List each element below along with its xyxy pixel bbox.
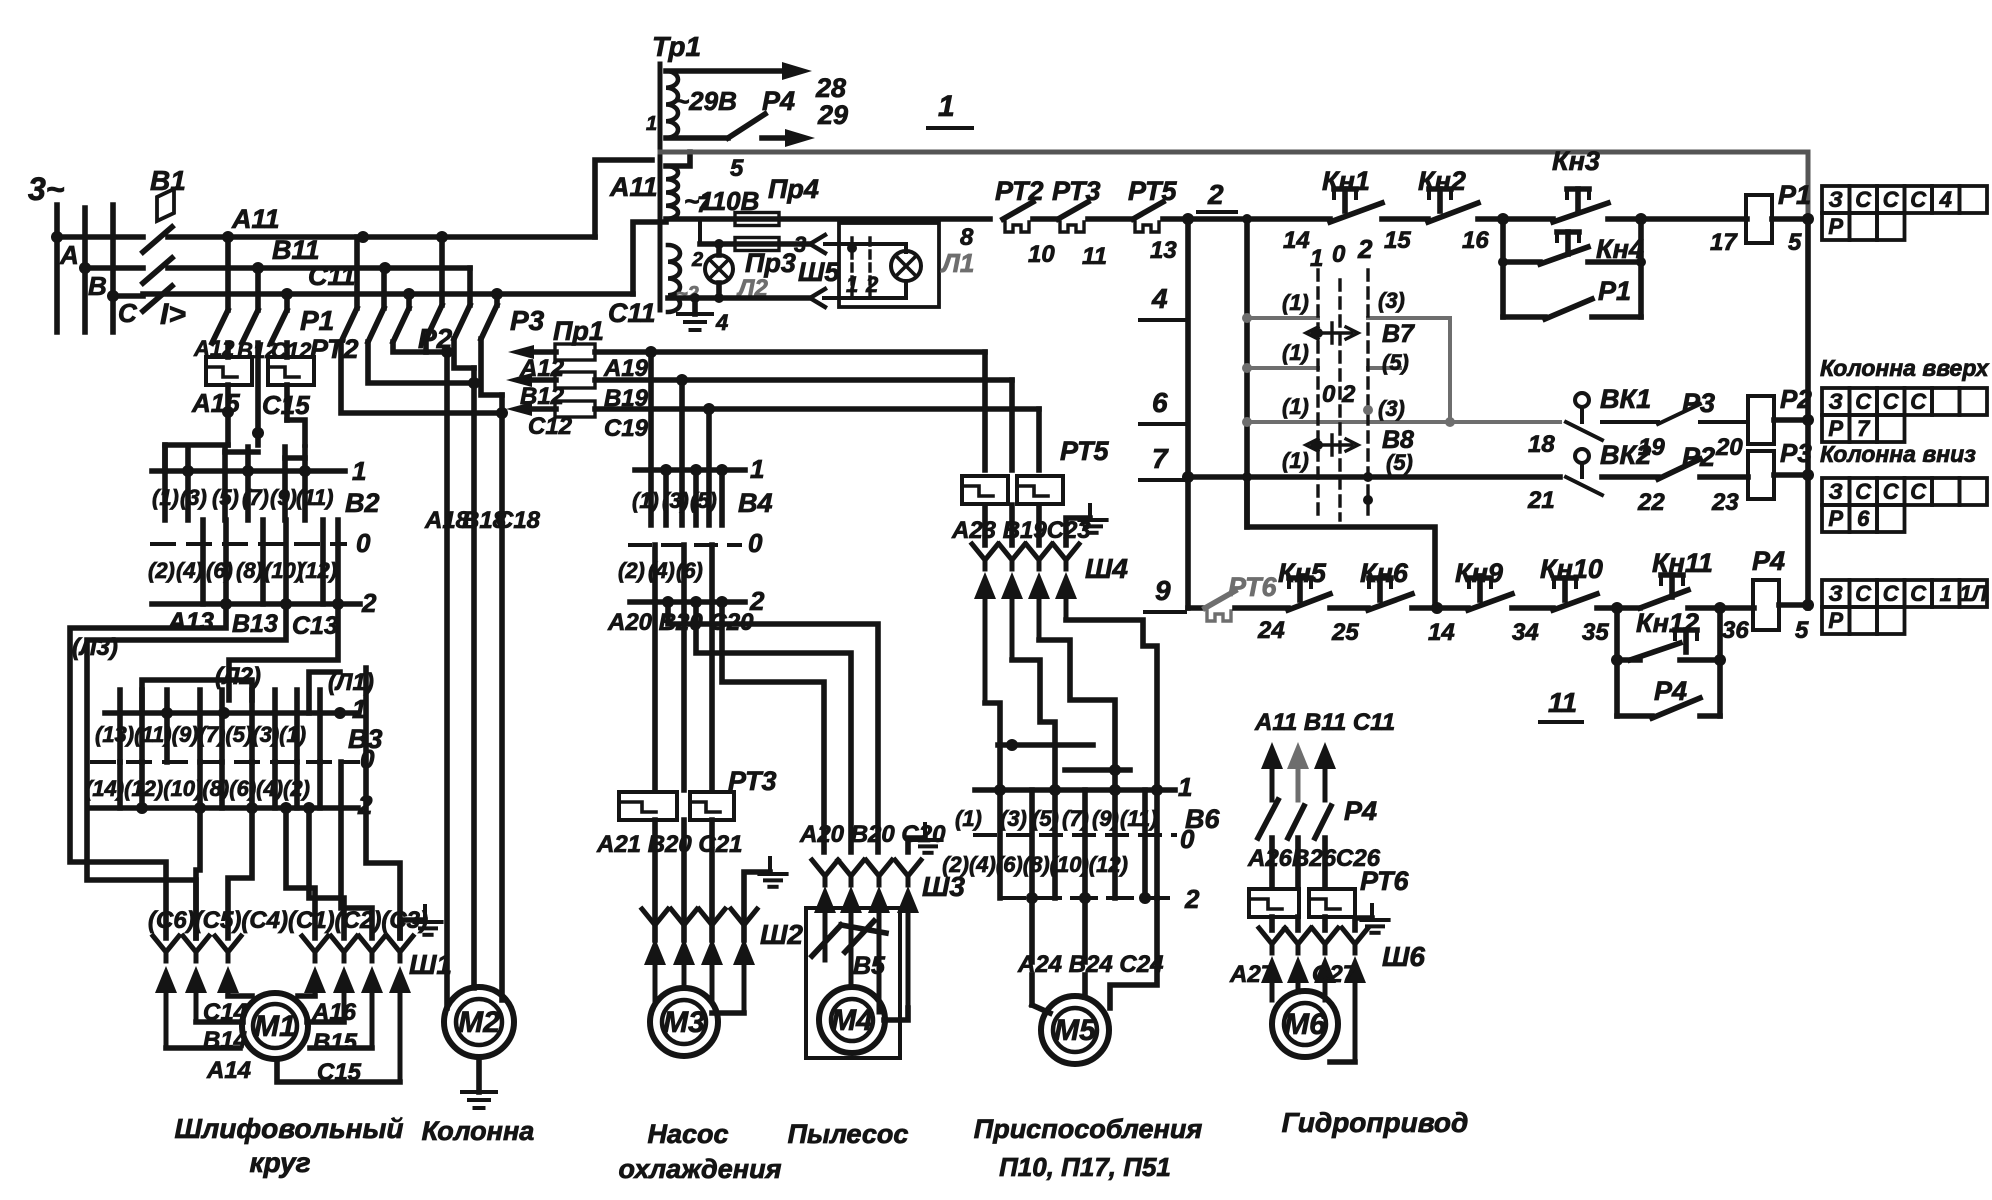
svg-text:1: 1 [352,694,366,724]
terminal block column down [1822,478,1850,505]
node rail P1 [1802,213,1814,225]
wire bus C to switch [113,293,143,299]
switch B2 poles upper [162,447,168,520]
svg-text:2: 2 [1207,179,1224,210]
svg-text:С: С [1855,581,1872,606]
node C18 join [496,407,508,419]
ground Sh4 [1079,518,1106,522]
svg-text:Шлифовольный: Шлифовольный [174,1113,403,1144]
wire M3 return [744,872,770,940]
svg-text:2: 2 [1184,884,1200,914]
svg-text:(7): (7) [242,485,269,510]
node A11-P1 [222,231,234,243]
wire [1700,474,1748,480]
node B4-1c [716,464,728,476]
svg-text:Р3: Р3 [1682,388,1715,418]
node [1445,417,1455,427]
svg-text:15: 15 [1384,227,1411,254]
svg-text:А27: А27 [1229,961,1276,988]
wire Sh4-B6 stair C [1039,640,1115,790]
svg-text:2: 2 [361,588,377,618]
svg-text:Ш2: Ш2 [760,919,803,950]
svg-text:25: 25 [1331,619,1359,646]
svg-text:Приспособления: Приспособления [974,1114,1203,1144]
button Kn6 [1377,578,1383,600]
wire M5 leads [1029,898,1035,962]
fuse Pr1-A [555,344,595,360]
wire secondary 29V top lead to arrow 28 [666,68,792,74]
svg-text:(2)(4)(6)(8)(10)(12): (2)(4)(6)(8)(10)(12) [942,852,1128,877]
svg-text:Колонна вверх: Колонна вверх [1820,355,1990,381]
transformer Tp1 winding 29V [666,71,678,138]
wire M4 phase C [722,602,824,852]
wire net A12 arrow [522,349,556,355]
wire [1602,474,1658,480]
switch B4 neutral 0 [630,543,740,547]
svg-text:С12: С12 [528,413,573,440]
node B11-P2 [379,262,391,274]
svg-text:21: 21 [1527,487,1555,514]
svg-text:Р: Р [1828,214,1843,239]
wire 24V return [668,295,810,301]
svg-text:Кн6: Кн6 [1360,558,1409,588]
node [1498,257,1508,267]
wire row rail vertical [1244,219,1250,527]
svg-text:18: 18 [1528,431,1555,458]
svg-text:В15: В15 [313,1029,358,1056]
node B4-1b [690,464,702,476]
relay coil P2 [1748,396,1774,444]
svg-text:(6): (6) [676,558,703,583]
svg-text:С19: С19 [604,415,649,442]
svg-text:Пр3: Пр3 [745,248,796,278]
switch B2 line 2 [152,601,360,607]
svg-text:С: С [1855,187,1872,212]
relay coil P1 [1746,195,1772,243]
node B4-1a [660,464,672,476]
node line2 start [1182,213,1194,225]
wire B3 pole feeds [142,680,252,713]
svg-text:Кн10: Кн10 [1540,554,1603,584]
node [1802,469,1814,481]
wire RT5 drop rail [1185,219,1191,608]
svg-text:А21 В20 С21: А21 В20 С21 [596,831,742,858]
wire 29V lead arrow 29 [762,135,795,141]
svg-text:4: 4 [715,310,728,335]
svg-text:РТ2: РТ2 [995,176,1044,206]
motor M2 [444,987,514,1057]
svg-text:Ш4: Ш4 [1085,553,1128,584]
connector Sh4 plugs [983,586,988,703]
svg-text:22: 22 [1637,489,1665,516]
wire C19 line [595,406,1039,412]
terminal block circuit 9 [1822,580,1850,607]
switch B3 neutral 0 [92,760,358,764]
svg-text:14: 14 [1283,227,1310,254]
wire M4 phase A [668,602,878,852]
button Kn5 [1297,578,1303,600]
wire to Sh1 pin C5 [196,808,200,938]
node B3-2b [194,802,206,814]
switch B6 neutral 0 [975,833,1175,837]
svg-text:З: З [1829,581,1843,606]
wire A19 drop to PT5 [982,352,988,470]
wire M4 entries [884,1008,908,1020]
wire phase C drop [110,205,116,332]
svg-text:Р3: Р3 [510,305,545,336]
svg-text:РТ6: РТ6 [1360,866,1409,896]
node [1242,417,1252,427]
wire to Sh1 pin C1 [286,808,315,938]
svg-text:круг: круг [249,1147,310,1178]
wire 110V lead to fuse Pr4 [666,216,990,222]
svg-text:Р4: Р4 [762,86,795,116]
svg-text:Пр1: Пр1 [553,316,604,346]
node B6-2a [1026,892,1038,904]
svg-text:Р1: Р1 [300,305,334,336]
wire bus A11 [168,234,595,240]
wire line 9 rail [1188,605,1205,611]
thermal contact RT6 [1205,591,1235,608]
svg-text:С: С [1910,581,1927,606]
node B3-1c [334,707,346,719]
svg-text:35: 35 [1582,619,1609,646]
switch B6 poles [997,790,1003,898]
wire Kn4 bypass left [1500,219,1506,317]
svg-text:28: 28 [815,73,846,103]
wire bus B to switch [85,265,143,271]
svg-text:6: 6 [1152,387,1168,418]
wire line 2 rail [1188,216,1330,222]
node [1802,414,1814,426]
svg-text:13: 13 [1150,237,1177,264]
ground transformer [692,298,698,314]
node lamp top [714,239,724,249]
node B2-2c [332,598,344,610]
wire coil P2 to rail [1774,417,1808,423]
node A15 [222,406,234,418]
svg-text:(9): (9) [270,485,297,510]
relay coil P3 [1748,451,1774,499]
contact P4 in 29V line [666,135,728,141]
svg-text:(1): (1) [1282,448,1309,473]
switch B2 line 1 [152,468,345,474]
thermal relay PT3 heaters [619,792,677,820]
svg-text:М5: М5 [1054,1014,1097,1047]
svg-text:А: А [59,240,79,270]
svg-text:(4): (4) [176,558,203,583]
svg-text:С11: С11 [308,261,356,291]
vacuum cleaner box [806,908,900,1058]
svg-text:4: 4 [1151,283,1168,314]
node C19-B4 [703,403,715,415]
svg-text:0 2: 0 2 [1322,381,1356,408]
switch B4 line 1 [635,467,745,473]
button Kn1 [1342,189,1348,211]
svg-text:(9): (9) [1092,806,1119,831]
svg-text:1: 1 [1310,245,1323,272]
plug pin 2 [868,238,871,295]
wire right return rail [1806,152,1811,219]
switch B4 line 2 [630,599,745,605]
ground Sh6 [1361,918,1388,922]
svg-text:Ш6: Ш6 [1382,941,1425,972]
thermal contact RT2 [1003,202,1033,219]
svg-text:В: В [88,271,107,301]
switch B4 contacts lower [652,545,658,602]
svg-text:(7): (7) [1062,806,1089,831]
button Kn12 bypass [1614,608,1620,660]
wire row 7 [1188,474,1560,480]
svg-text:Колонна вниз: Колонна вниз [1820,441,1976,467]
svg-text:РТ6: РТ6 [1228,572,1277,602]
node B4-2c [716,596,728,608]
wire M5 leads lower [1029,975,1035,1005]
svg-text:Р3: Р3 [1780,438,1812,468]
wire 110V top lead to line 1 bus [666,152,690,166]
selector B8 crossbar [1306,435,1358,455]
thermal relay PT6 heaters [1249,889,1299,917]
wire phase B drop [82,208,88,332]
thermal relay PT2 heaters [206,357,252,385]
svg-text:Кн5: Кн5 [1278,558,1327,588]
transformer Tp1 winding 24V [668,245,680,312]
wire M3 phase C [709,602,715,790]
svg-text:А11: А11 [231,204,280,234]
wire M6 return [1330,1059,1355,1065]
node C11-P1 [281,288,293,300]
svg-text:(12): (12) [298,558,337,583]
wire row 5 [1247,366,1318,370]
wire row 5 cont [1368,366,1400,370]
svg-text:(1): (1) [955,806,982,831]
node [1242,214,1252,224]
node [1363,472,1373,482]
svg-text:0: 0 [748,528,763,558]
wire Sh4-B6 stair B [1012,660,1055,790]
svg-text:А13: А13 [167,608,214,636]
plug pin 1 [850,238,853,295]
node B3-2d [280,802,292,814]
node B [79,262,91,274]
button Kn9 [1477,578,1483,600]
node [1242,363,1252,373]
switch B3 poles lower [117,762,123,808]
wire M3 phase B [681,602,687,790]
svg-text:7: 7 [697,192,711,217]
svg-text:(3): (3) [1378,288,1405,313]
node [1431,602,1443,614]
wire plug to lamp top [852,244,906,252]
svg-text:А23 В19С23: А23 В19С23 [951,517,1091,544]
wire B6 cross links [998,742,1093,748]
ground M2 [476,1057,482,1092]
wire row 4 cont [1368,318,1450,422]
connector Sh6 sockets [1259,928,1285,953]
svg-text:11: 11 [1082,243,1107,270]
svg-text:Р2: Р2 [1682,442,1715,472]
svg-text:Кн3: Кн3 [1552,146,1600,176]
svg-text:Р: Р [1828,506,1843,531]
node row7 join [1182,471,1194,483]
svg-text:В4: В4 [738,488,773,518]
svg-text:Пр4: Пр4 [768,174,819,204]
wire M1 leads left [166,1045,240,1051]
svg-text:В5: В5 [853,952,886,980]
wire [1033,216,1058,222]
svg-text:С: С [1883,389,1900,414]
connector Sh2 sockets [642,909,668,934]
wire RT5 output to node [1163,216,1188,222]
svg-text:РТ3: РТ3 [1052,176,1101,206]
svg-text:Кн11: Кн11 [1652,548,1713,578]
svg-text:10: 10 [1028,241,1055,268]
svg-text:С18: С18 [496,507,541,534]
contact P4 self hold [1614,660,1620,716]
button Kn4 [1565,232,1571,254]
svg-text:0: 0 [1332,241,1346,268]
svg-text:С15: С15 [317,1059,362,1086]
node B4-2b [690,596,702,608]
wire C11 riser to transformer [633,222,666,294]
svg-text:(11): (11) [296,485,334,510]
node B6-1b [1049,784,1061,796]
svg-text:(3): (3) [1000,806,1027,831]
node [1636,257,1646,267]
svg-text:ВК2: ВК2 [1600,440,1651,470]
selector B7 B8 dashed stems [1316,270,1319,520]
svg-text:(5): (5) [1386,450,1413,475]
wire [1235,605,1288,611]
connector Sh3 sockets [812,860,838,885]
svg-text:(5): (5) [212,485,239,510]
wire to Sh1 pin C4 [228,808,252,938]
svg-text:(4): (4) [648,558,675,583]
svg-text:(1): (1) [632,488,659,513]
svg-text:З: З [1829,479,1843,504]
svg-text:Р: Р [1828,608,1843,633]
svg-text:(2): (2) [618,558,645,583]
wire [1478,216,1553,222]
svg-text:0: 0 [356,528,371,558]
node B2-1b [242,465,254,477]
thermal contact RT5 [1133,202,1163,219]
svg-text:В2: В2 [345,488,380,518]
svg-text:29: 29 [817,100,848,130]
svg-text:(3): (3) [180,485,207,510]
svg-text:Ш5: Ш5 [798,257,840,287]
node stair D line1 [1151,784,1163,796]
svg-text:В1: В1 [150,165,186,196]
node lamp bottom [714,293,724,303]
wire M4 phase B [696,602,851,852]
svg-text:А24 В24 С24: А24 В24 С24 [1017,951,1163,978]
thermal relay PT5 heaters [962,476,1008,504]
svg-text:Р1: Р1 [1778,180,1811,210]
limit switch BK1 [1575,393,1589,407]
contact P4 three pole [1258,800,1278,838]
svg-text:(2): (2) [148,558,175,583]
wire bypass right vertical [1638,219,1644,317]
svg-text:Тр1: Тр1 [652,31,701,62]
svg-text:Р4: Р4 [1344,796,1377,826]
svg-text:(1): (1) [1282,290,1309,315]
svg-text:С: С [1910,389,1927,414]
svg-text:1: 1 [1178,772,1192,802]
svg-text:Гидропривод: Гидропривод [1282,1107,1469,1138]
connector Sh6 plugs [1270,970,1275,1000]
terminal block circuit 2 [1822,186,1850,213]
node B2-2a [220,598,232,610]
node B6-1a [994,784,1006,796]
wire B13 loop [87,604,286,938]
svg-text:Р4: Р4 [1654,676,1687,706]
svg-text:РТ5: РТ5 [1060,436,1109,466]
svg-text:8: 8 [960,224,974,251]
node B6-2c [1139,892,1151,904]
node B3-2a [136,802,148,814]
node C11-P3 [491,288,503,300]
svg-text:РТ3: РТ3 [728,766,777,796]
wire bus A to switch [57,234,143,240]
node ground tap [690,293,700,303]
node B6-1c [1109,784,1121,796]
wire M1 bottom loop [277,1060,400,1082]
svg-text:~29В: ~29В [674,86,737,116]
svg-text:Р4: Р4 [1752,546,1785,576]
wire M3 phase A [652,602,658,790]
wire lamp feed via fuse Pr3 [698,219,702,244]
node [1313,440,1323,450]
svg-text:3: 3 [794,232,806,257]
wire A18 drop [444,352,450,1008]
lamp L2 [705,255,733,283]
svg-text:1: 1 [938,90,955,123]
wire B19 drop to PT5 [1009,380,1015,470]
wire [1382,216,1428,222]
wire phase A drop [54,205,60,332]
svg-text:Р: Р [1828,416,1843,441]
svg-text:М2: М2 [458,1006,500,1039]
svg-text:(5): (5) [1032,806,1059,831]
transformer Tp1 core [658,64,663,310]
wire P2 output B loop [368,342,474,383]
wire P2 output C stub [393,342,447,352]
svg-text:7: 7 [1152,443,1169,474]
switch B6 line 2 [1000,896,1175,900]
svg-text:С12: С12 [271,338,312,363]
wire coil P4 to rail [1779,602,1808,608]
button Kn11 [1669,575,1675,597]
svg-text:А14: А14 [206,1057,251,1084]
svg-text:3~: 3~ [28,171,65,207]
svg-text:С: С [1855,389,1872,414]
svg-text:2: 2 [1357,234,1373,264]
node B3-1b [218,707,230,719]
thermal contact RT3 [1058,202,1088,219]
button Kn10 [1562,578,1568,600]
svg-text:В7: В7 [1382,320,1415,348]
node Kn4 branch [1497,213,1509,225]
svg-text:М3: М3 [663,1006,705,1039]
wire bus C11 [143,291,633,297]
wire control line 1 bus [660,150,1808,155]
svg-text:Колонна: Колонна [422,1116,535,1146]
svg-text:РТ2: РТ2 [310,334,359,364]
svg-text:Л1: Л1 [940,248,974,278]
motor M3 [650,988,718,1056]
svg-text:С: С [1910,479,1927,504]
